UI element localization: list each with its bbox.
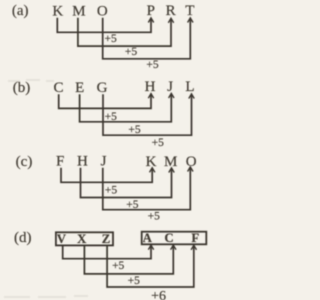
- wire C to H: [59, 94, 151, 108]
- svg-text:+5: +5: [126, 199, 138, 211]
- wire V to A: [63, 245, 151, 258]
- svg-text:H: H: [77, 154, 88, 170]
- svg-text:+5: +5: [128, 124, 140, 136]
- svg-text:C: C: [164, 231, 173, 245]
- svg-text:+6: +6: [151, 289, 166, 300]
- svg-text:(b): (b): [13, 80, 31, 96]
- svg-text:R: R: [166, 3, 176, 19]
- svg-text:+5: +5: [148, 211, 160, 223]
- svg-text:C: C: [53, 80, 63, 96]
- box ACF: [142, 232, 207, 245]
- svg-text:+5: +5: [152, 137, 164, 149]
- svg-text:+5: +5: [112, 260, 124, 272]
- wire O to T: [103, 18, 191, 59]
- arrowhead F2: [191, 245, 196, 250]
- svg-text:K: K: [52, 4, 63, 20]
- svg-text:M: M: [164, 154, 177, 170]
- arrowhead H: [148, 94, 153, 99]
- svg-text:+5: +5: [105, 111, 117, 123]
- svg-text:H: H: [145, 79, 156, 95]
- svg-text:(a): (a): [12, 3, 29, 19]
- arrowhead M: [169, 168, 174, 173]
- svg-text:T: T: [185, 3, 194, 19]
- svg-text:E: E: [75, 80, 84, 96]
- svg-text:V: V: [57, 232, 67, 246]
- svg-text:O: O: [97, 4, 108, 20]
- svg-text:L: L: [185, 79, 194, 95]
- arrowhead J: [169, 93, 174, 98]
- faint scan smudges: [8, 80, 54, 81]
- arrowhead T: [188, 18, 193, 23]
- arrowhead L: [189, 94, 194, 99]
- svg-text:A: A: [143, 231, 153, 245]
- svg-text:+5: +5: [105, 184, 117, 196]
- wire F to K: [61, 168, 152, 183]
- wire M to R: [78, 18, 171, 46]
- svg-text:K: K: [146, 154, 157, 170]
- svg-text:+5: +5: [146, 59, 158, 71]
- wire H to M: [81, 168, 172, 198]
- svg-text:F: F: [191, 231, 199, 245]
- svg-text:J: J: [167, 79, 173, 95]
- wire Z to F: [107, 245, 194, 287]
- svg-text:F: F: [56, 154, 64, 170]
- svg-text:J: J: [101, 154, 107, 170]
- wire K to P: [57, 18, 151, 33]
- arrowhead R: [168, 18, 173, 23]
- svg-text:X: X: [77, 232, 87, 246]
- svg-text:Z: Z: [102, 232, 111, 246]
- arrowhead C2: [171, 245, 176, 250]
- box VXZ: [56, 232, 113, 245]
- arrowhead A: [148, 245, 153, 250]
- svg-text:+5: +5: [125, 46, 137, 58]
- svg-text:(c): (c): [16, 154, 33, 170]
- arrowhead O: [188, 167, 193, 172]
- svg-text:(d): (d): [14, 230, 32, 246]
- svg-text:M: M: [72, 4, 85, 20]
- wire X to C: [84, 245, 173, 274]
- svg-text:G: G: [97, 80, 108, 96]
- svg-text:O: O: [186, 154, 197, 170]
- svg-text:P: P: [147, 3, 155, 19]
- wire G to L: [103, 94, 192, 135]
- wire E to J: [80, 94, 172, 122]
- wire J to O: [103, 168, 191, 210]
- arrowhead K: [150, 168, 155, 173]
- arrowhead P: [148, 18, 153, 23]
- svg-text:+5: +5: [104, 33, 116, 45]
- svg-text:+5: +5: [128, 275, 140, 287]
